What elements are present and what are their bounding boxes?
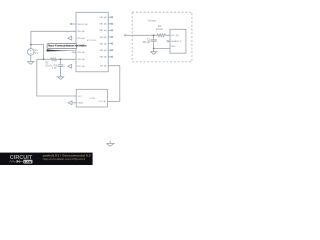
svg-text:Neue Kommunikation herstellen: Neue Kommunikation herstellen xyxy=(48,44,87,48)
svg-text:PA3 (A): PA3 (A) xyxy=(99,36,106,39)
svg-text:RESET (A): RESET (A) xyxy=(77,23,88,26)
svg-text:PA1 (A): PA1 (A) xyxy=(99,23,106,26)
svg-text:PB6 (A): PB6 (A) xyxy=(77,51,85,54)
svg-text:GND: GND xyxy=(171,46,176,48)
svg-text:PW (A): PW (A) xyxy=(100,65,107,68)
svg-text:DATA: DATA xyxy=(171,40,177,43)
svg-text:PA5 (A): PA5 (A) xyxy=(99,49,106,52)
svg-text:LAB: LAB xyxy=(24,160,32,164)
svg-text:PA0 (A): PA0 (A) xyxy=(99,16,106,19)
svg-text:PB3 (A): PB3 (A) xyxy=(77,30,85,33)
svg-text:OUT (A): OUT (A) xyxy=(98,100,106,103)
svg-text:TX433: TX433 xyxy=(89,98,96,100)
svg-text:10 kΩ: 10 kΩ xyxy=(156,28,163,31)
svg-text:SHT11: SHT11 xyxy=(175,41,182,43)
svg-text:Sensor: Sensor xyxy=(148,19,156,22)
svg-text:PB1 (A): PB1 (A) xyxy=(77,65,85,68)
svg-text:PB2 (A): PB2 (A) xyxy=(77,58,85,61)
svg-text:ATTINY84: ATTINY84 xyxy=(87,39,97,42)
svg-text:5 V: 5 V xyxy=(35,52,39,55)
svg-text:PA2 (A): PA2 (A) xyxy=(99,29,106,32)
svg-text:1 µF: 1 µF xyxy=(52,66,58,69)
svg-text:PA6 (A): PA6 (A) xyxy=(99,56,106,59)
svg-text:VCC (A): VCC (A) xyxy=(171,34,179,37)
svg-text:VCC: VCC xyxy=(78,96,83,98)
svg-text:PA4 (A): PA4 (A) xyxy=(99,42,106,45)
svg-text:DATA: DATA xyxy=(78,102,84,105)
svg-text:http:∕∕circuitlab.com∕c∕5pucc4: http:∕∕circuitlab.com∕c∕5pucc4 xyxy=(43,157,86,161)
svg-text:PB4 (A): PB4 (A) xyxy=(77,37,85,40)
svg-text:100 pF: 100 pF xyxy=(142,41,150,44)
svg-text:paths/LV1 / Sensormodul 0.2: paths/LV1 / Sensormodul 0.2 xyxy=(43,153,92,157)
